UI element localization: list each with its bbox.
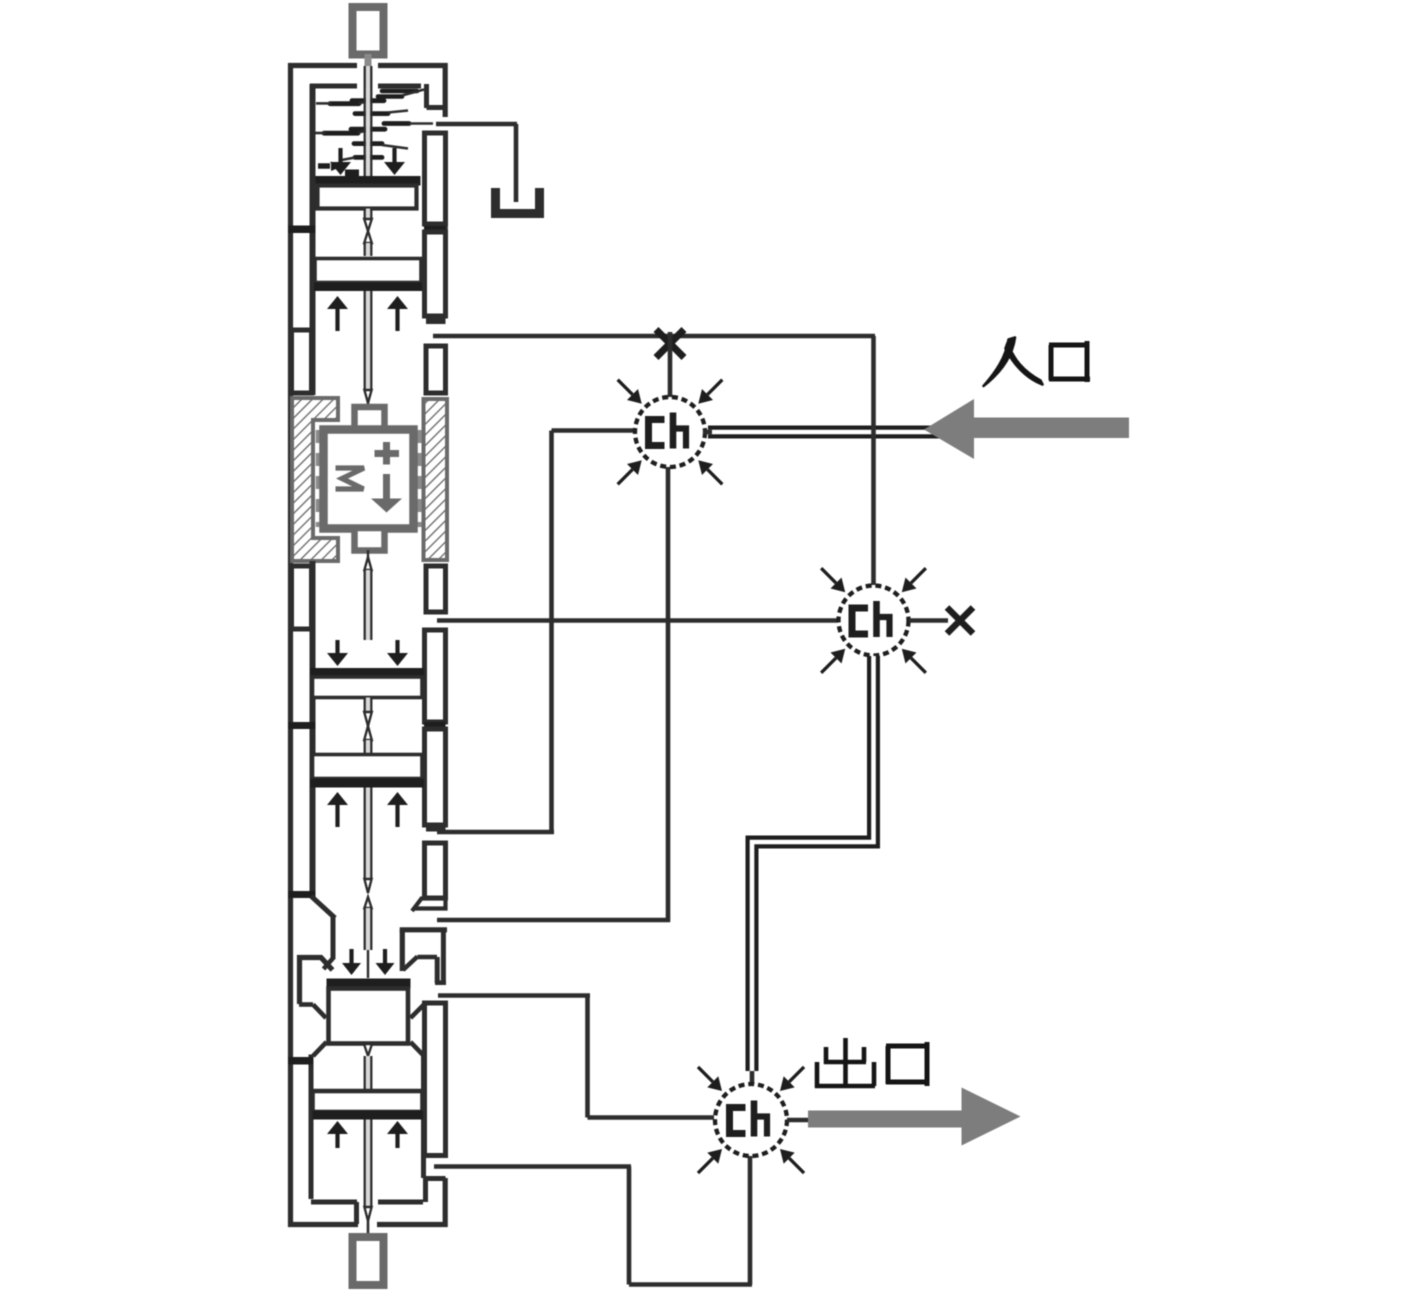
inner wall left mid [310, 561, 316, 722]
right wall port box (motor top) [426, 346, 446, 393]
up arrow right (chamber 3) [395, 805, 399, 827]
rod coupling below valve [364, 1044, 372, 1056]
left wall port box (motor top) [292, 330, 312, 393]
rod end cap (top) [353, 7, 384, 55]
Ch2 right line [909, 618, 948, 623]
label kou (mouth) after chu [886, 1042, 929, 1086]
piston 4 black band [311, 779, 425, 788]
down arrow left (chamber 2) [335, 640, 339, 653]
piston 2 body [315, 259, 421, 283]
inner step top-right [424, 84, 429, 108]
housing outer shell bottom [288, 1222, 358, 1227]
rod coupling 2 [366, 698, 370, 713]
down arrow right (top chamber) [392, 148, 396, 162]
motor label M rotated [336, 468, 365, 489]
wall tick left [288, 226, 316, 234]
rod coupling 1 [366, 209, 370, 220]
piston 1 black band [316, 176, 421, 186]
left wall port box (motor bottom) [292, 566, 312, 629]
riser to Ch1 left [549, 431, 554, 835]
right wall box upper [425, 133, 446, 224]
up arrow left (chamber 1) [335, 309, 339, 331]
Ch1 top line [668, 332, 673, 397]
check valve Ch3 [715, 1084, 787, 1156]
label kou (mouth) after ru [1049, 341, 1090, 382]
check valve Ch1 [635, 397, 705, 467]
piston 1 body [318, 186, 417, 209]
rod to housing (top) [365, 54, 372, 88]
valve block body [329, 989, 409, 1044]
right wall box bottom [425, 1003, 446, 1156]
right wall L-bend mid [426, 826, 446, 832]
rod to bottom valve [366, 788, 370, 880]
valve reed stack [382, 89, 417, 94]
chamber bottom inner [311, 1200, 357, 1205]
valve seat right [424, 1002, 438, 1007]
motor M body [324, 430, 414, 529]
rod end cap (bottom) [353, 1237, 384, 1285]
inner wall left upper [310, 84, 316, 226]
up arrow right (bottom chamber) [395, 1134, 399, 1148]
up arrow left (chamber 3) [335, 805, 339, 827]
bottom piston black band [313, 1111, 424, 1120]
pipe E to Ch1 bottom [437, 918, 670, 923]
label ru (enter) right stroke [1006, 343, 1043, 385]
stator hatched block left [292, 398, 338, 561]
housing outer shell top [288, 63, 357, 68]
inner wall left [310, 233, 316, 395]
pipe G to Ch3 bottom [434, 1164, 631, 1169]
Ch3 right line [787, 1118, 808, 1123]
up arrow left (bottom chamber) [335, 1134, 339, 1148]
rod upper segment [366, 66, 370, 176]
housing outer wall right segments [443, 63, 448, 117]
Ch3 bottom line [748, 1156, 753, 1285]
housing outer wall left [288, 63, 293, 1227]
inner wall left lower-mid [310, 729, 316, 893]
piston 3 body [313, 677, 423, 698]
plugged port X on line [656, 330, 684, 358]
bottom rod [366, 1120, 370, 1208]
right wall L-bend [426, 318, 446, 324]
Ch2 top line [871, 336, 876, 585]
right wall port box (motor bottom) [426, 566, 446, 612]
down arrow left (valve inlet) [349, 949, 353, 963]
funnel chamfer left [311, 896, 335, 918]
inlet arrow [924, 399, 1129, 459]
wall tick bottom left [288, 1057, 313, 1065]
valve block black band [327, 979, 411, 989]
plugged port X right [947, 608, 973, 634]
outlet arrow [808, 1088, 1021, 1146]
down arrow right (valve inlet) [383, 949, 387, 963]
piston 4 body [313, 755, 423, 779]
hook piece left [300, 958, 333, 1005]
label chu (exit) [815, 1038, 875, 1088]
motor plus sign [375, 450, 400, 457]
dash detail left [318, 163, 330, 169]
right wall box with chamfer [425, 843, 446, 898]
wall tick left mid [288, 722, 316, 729]
wall tick left low [288, 891, 316, 898]
lower chamber wall left [309, 1055, 314, 1200]
right wall box mid [425, 630, 446, 722]
valve seat left [299, 1002, 313, 1007]
Ch2 to Ch3 double pipe [752, 656, 874, 1071]
tank (cup) symbol [491, 188, 500, 214]
inner chamber top wall [310, 84, 357, 89]
motor top tab [355, 407, 385, 430]
piston 2 black band [314, 283, 422, 292]
pipe C to Ch2 [437, 618, 838, 623]
lower chamber wall right [421, 1055, 426, 1179]
pipe B from pump to junction line [433, 334, 875, 339]
seat blob on piston 1 [345, 170, 359, 177]
rod above motor [366, 291, 370, 390]
hook piece right [400, 927, 447, 932]
bottom piston body [314, 1092, 422, 1111]
stator hatched block right [424, 399, 448, 560]
label ru (enter) left stroke [984, 338, 1016, 387]
down arrow left (top chamber) [338, 148, 342, 162]
inlet double pipe [708, 426, 958, 439]
up arrow right (chamber 1) [395, 309, 399, 331]
motor dashed guide left [316, 430, 322, 527]
pipe F to Ch3 left [438, 993, 590, 998]
bottom piston top plate [313, 1089, 422, 1092]
rod below motor [367, 550, 369, 557]
Ch1 bottom line [666, 467, 671, 922]
motor bottom tab [355, 528, 385, 551]
down arrow right (chamber 2) [395, 640, 399, 653]
motor down arrow [383, 474, 390, 499]
piston 3 black band [311, 668, 425, 677]
pipe D to riser [437, 830, 554, 835]
drain pipe to tank [436, 122, 517, 127]
motor dashed guide right [416, 430, 422, 527]
check valve Ch2 [839, 586, 909, 656]
